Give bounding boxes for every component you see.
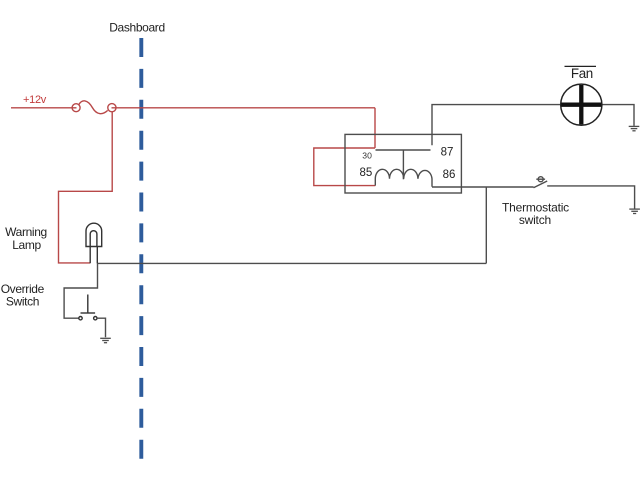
svg-text:86: 86 (443, 169, 456, 181)
svg-text:87: 87 (441, 146, 454, 158)
wire relay pin 87 riser to fan (432, 105, 634, 146)
svg-text:30: 30 (362, 151, 372, 161)
wire fuse to warning lamp (drop, jog, drop) (59, 112, 113, 263)
svg-text:Fan: Fan (571, 66, 593, 81)
svg-text:switch: switch (519, 213, 551, 227)
wire +12v rail to relay drop (112, 107, 376, 109)
fuse F1 (72, 101, 116, 114)
svg-text:Dashboard: Dashboard (109, 21, 165, 35)
ground (thermostatic switch) (629, 209, 640, 213)
relay coil (pins 85-86) (375, 169, 432, 187)
warning lamp DS1 (86, 223, 102, 263)
relay armature link (402, 150, 404, 179)
svg-text:Lamp: Lamp (12, 238, 41, 252)
thermostatic switch S1 (534, 177, 548, 188)
label Fan with overline (565, 66, 597, 81)
fan motor M1 (561, 84, 602, 125)
wire lamp junction down to override switch (64, 263, 97, 318)
label Override Switch (1, 282, 45, 309)
svg-text:Switch: Switch (6, 294, 39, 308)
wire override switch to ground (97, 318, 106, 337)
label Warning Lamp (5, 225, 47, 252)
wire relay pin 30 to pin 85 loop (314, 148, 376, 186)
wire thermostatic switch to ground (547, 186, 634, 209)
ground (fan) (629, 126, 640, 130)
relay K1 body (345, 134, 461, 193)
wire +12v feed to fuse (11, 107, 77, 109)
svg-text:85: 85 (360, 167, 373, 179)
relay contact arm (pin 30) (376, 149, 431, 151)
dashboard dashed partition line (139, 38, 143, 459)
svg-text:+12v: +12v (23, 94, 47, 106)
wire relay pin 86 to thermostatic switch (432, 186, 534, 188)
wire junction drop to warning lamp line (485, 187, 487, 263)
svg-text:Warning: Warning (5, 225, 47, 239)
ground (override switch) (100, 338, 111, 342)
wire warning lamp to junction (98, 262, 487, 264)
wire +12v drop to relay pin 30 (374, 108, 376, 148)
override switch S2 (push button) (79, 295, 97, 320)
label Thermostatic switch (502, 201, 569, 228)
